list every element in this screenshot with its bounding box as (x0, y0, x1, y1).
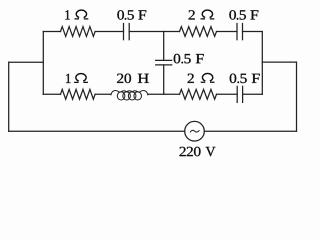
capacitor C top-right 0.5 F plate right (242, 24, 244, 40)
capacitor C second-branch 0.5 F plate left (236, 86, 238, 102)
resistor R top-right 2 ohm (180, 27, 217, 37)
label 20 H inductor (117, 74, 149, 83)
wire bottom right of source (204, 130, 296, 132)
wire bottom left of source (9, 130, 185, 132)
wire top branch between R and C (95, 31, 123, 33)
wire left outer vertical (8, 62, 10, 131)
resistor R second-branch 2 ohm (180, 89, 217, 99)
wire middle vertical lower (163, 65, 165, 94)
wire top branch right end (243, 31, 263, 33)
resistor R top-left 1 ohm (61, 27, 96, 37)
wire second branch L to node to R (148, 93, 180, 95)
wire top branch left segment (43, 31, 60, 33)
label 2 ohm top (189, 10, 195, 19)
wire second branch R to C (217, 93, 238, 95)
capacitor C top-left 0.5 F plate left (123, 24, 125, 40)
label 0.5 F middle (174, 54, 204, 64)
wire second branch left segment (43, 93, 60, 95)
capacitor C top-right 0.5 F plate left (236, 24, 238, 40)
wire left vertical joining branches (42, 32, 44, 95)
label 0.5 F second-branch right (230, 74, 260, 84)
wire middle vertical upper (163, 32, 165, 61)
label 2 ohm second branch (188, 74, 194, 83)
AC source sine symbol (190, 130, 199, 132)
wire top branch R2 to C2 (217, 31, 238, 33)
resistor R second-branch 1 ohm (61, 89, 96, 99)
capacitor C top-left 0.5 F plate right (128, 24, 130, 40)
wire second branch right end (243, 93, 263, 95)
wire right outer vertical (296, 62, 298, 131)
wire right vertical joining branches (261, 32, 263, 95)
label 0.5 F top-left (117, 10, 146, 20)
inductor L 20 H coil (111, 91, 148, 100)
capacitor C middle 0.5 F plate bottom (156, 64, 172, 66)
wire second branch R to L (95, 93, 111, 95)
wire top branch C to node (129, 31, 179, 33)
label 0.5 F top-right (229, 10, 258, 20)
label 220 V source (180, 147, 216, 157)
label 1 ohm second branch (66, 74, 70, 83)
AC source circle (185, 121, 205, 141)
capacitor C second-branch 0.5 F plate right (242, 86, 244, 102)
wire right stub to outer loop (262, 61, 296, 63)
label 1 ohm top (65, 10, 69, 19)
capacitor C middle 0.5 F plate top (156, 59, 172, 61)
wire left stub to outer loop (9, 61, 44, 63)
